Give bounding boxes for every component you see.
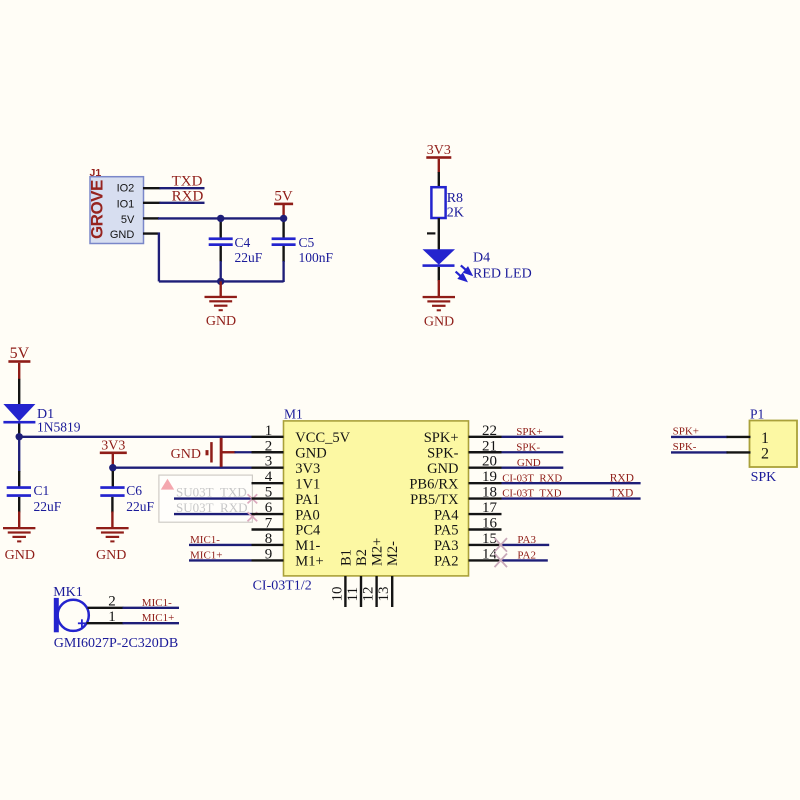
svg-text:RXD: RXD — [610, 472, 634, 484]
wire GND from J1.GND — [143, 232, 160, 234]
svg-text:16: 16 — [482, 516, 498, 532]
capacitor C1 — [7, 486, 31, 489]
svg-text:PA5: PA5 — [434, 523, 458, 539]
junction dot 5V-C5 — [280, 215, 287, 222]
LED arrows — [456, 265, 471, 280]
wire SPK- net (M1 pin21) — [502, 451, 564, 453]
svg-text:10: 10 — [329, 587, 345, 602]
wire D1 to node — [18, 424, 20, 438]
svg-text:CI-03T RXD: CI-03T RXD — [502, 472, 562, 484]
junction dot 5V-C4 — [217, 215, 224, 222]
svg-text:5V: 5V — [121, 214, 135, 226]
svg-text:1N5819: 1N5819 — [37, 420, 81, 435]
wire PA1 to M1 pin5 — [174, 497, 252, 499]
wire D4 to gnd — [438, 267, 440, 281]
wire TXD net (M1 pin18) — [502, 497, 641, 499]
M1 left pin 4 (1V1) stub — [252, 482, 284, 484]
ground (LED) — [423, 296, 455, 298]
M1 left pin 5 (PA1) stub — [252, 497, 284, 499]
wire SPK+ to P1 pin1 — [671, 436, 728, 438]
watermark box (obsolete SU03T nets) — [159, 475, 253, 522]
svg-text:19: 19 — [482, 469, 497, 485]
M1 right pin 17 (PA4) stub — [469, 513, 502, 515]
svg-text:4: 4 — [265, 469, 273, 485]
svg-text:PB5/TX: PB5/TX — [410, 492, 459, 508]
svg-text:TXD: TXD — [610, 488, 634, 500]
M1 right pin 20 (GND) stub — [469, 467, 502, 469]
svg-text:PA2: PA2 — [434, 554, 458, 570]
M1 right pin 19 (PB6/RX) stub — [469, 482, 502, 484]
svg-text:SPK+: SPK+ — [424, 430, 459, 446]
wire MIC1- to M1 pin8 — [189, 544, 252, 546]
svg-text:M2+: M2+ — [370, 538, 386, 566]
svg-text:P1: P1 — [750, 406, 764, 421]
svg-text:20: 20 — [482, 454, 497, 470]
svg-text:M1+: M1+ — [295, 554, 323, 570]
M1 left pin 6 (PA0) stub — [252, 513, 284, 515]
svg-text:6: 6 — [265, 500, 273, 516]
svg-text:18: 18 — [482, 485, 497, 501]
wire SPK- to P1 pin2 — [671, 451, 728, 453]
svg-text:C6: C6 — [126, 483, 142, 498]
junction dot 3V3 node — [109, 464, 116, 471]
svg-text:3: 3 — [265, 454, 273, 470]
wire 5V rail from J1.5V — [143, 217, 159, 219]
svg-text:VCC_5V: VCC_5V — [295, 430, 350, 446]
wire RXD net (M1 pin19) — [502, 482, 641, 484]
M1 left pin 8 (M1-) stub — [252, 544, 284, 546]
M1 left pin 7 (PC4) stub — [252, 528, 284, 530]
wire 5V to D1 — [18, 379, 20, 405]
ground (top-left) — [219, 281, 221, 296]
svg-text:GND: GND — [427, 461, 458, 477]
svg-text:M1-: M1- — [295, 538, 320, 554]
M1 right pin 21 (SPK-) stub — [469, 451, 502, 453]
junction dot 5V node — [16, 433, 23, 440]
svg-text:9: 9 — [265, 546, 273, 562]
M1 left pin 9 (M1+) stub — [252, 559, 284, 561]
svg-text:CI-03T TXD: CI-03T TXD — [502, 488, 562, 500]
capacitor C4 — [219, 218, 221, 237]
svg-text:RXD: RXD — [172, 189, 204, 205]
no-connect X pin15 — [495, 538, 508, 552]
svg-text:PB6/RX: PB6/RX — [409, 476, 459, 492]
wire RXD from J1.IO1 — [143, 202, 161, 204]
wire gnd bottom rail — [159, 280, 284, 282]
svg-text:2: 2 — [108, 594, 116, 610]
svg-text:R8: R8 — [447, 191, 463, 206]
M1 right pin 16 (PA5) stub — [469, 528, 502, 530]
svg-text:17: 17 — [482, 500, 498, 516]
M1 right pin 15 (PA3) stub — [469, 544, 502, 546]
svg-text:5: 5 — [265, 485, 273, 501]
svg-text:SPK+: SPK+ — [673, 426, 699, 438]
MK1 pin 2 wire — [88, 607, 124, 609]
wire VCC_5V to M1 pin1 — [19, 436, 251, 438]
svg-text:GND: GND — [517, 457, 541, 469]
IC M1 body — [284, 421, 469, 576]
svg-text:GND: GND — [110, 229, 135, 241]
svg-text:5V: 5V — [10, 345, 30, 362]
svg-text:3V3: 3V3 — [427, 143, 451, 158]
svg-text:12: 12 — [361, 587, 377, 602]
LED D4 — [423, 249, 456, 265]
svg-text:7: 7 — [265, 516, 273, 532]
svg-text:SU03T TXD: SU03T TXD — [176, 485, 247, 500]
svg-text:CI-03T1/2: CI-03T1/2 — [253, 578, 312, 593]
connector P1 body — [750, 421, 798, 468]
no-connect X pin5 — [248, 494, 258, 503]
svg-text:5V: 5V — [274, 188, 293, 204]
svg-text:C4: C4 — [235, 235, 251, 250]
svg-text:SPK-: SPK- — [516, 441, 540, 453]
wire gnd flag to M1 pin2 — [222, 451, 235, 453]
svg-text:SPK: SPK — [751, 470, 777, 485]
no-connect X pin6 — [248, 512, 258, 521]
M1 left pin 3 (3V3) stub — [252, 467, 284, 469]
svg-text:SU03T RXD: SU03T RXD — [176, 500, 248, 515]
svg-text:22uF: 22uF — [34, 499, 62, 514]
pin-1 tick — [427, 232, 435, 234]
svg-text:22uF: 22uF — [126, 499, 154, 514]
svg-text:MIC1-: MIC1- — [142, 597, 172, 609]
svg-text:IO2: IO2 — [117, 182, 135, 194]
svg-text:SPK-: SPK- — [427, 445, 459, 461]
svg-text:MIC1+: MIC1+ — [142, 612, 174, 624]
svg-text:GND: GND — [295, 445, 326, 461]
svg-text:GND: GND — [171, 447, 201, 462]
M1 bottom pin 10 (B1) stub — [344, 576, 346, 607]
svg-text:22uF: 22uF — [235, 250, 263, 265]
svg-text:B2: B2 — [354, 549, 370, 566]
svg-text:PA4: PA4 — [434, 507, 459, 523]
wire TXD from J1.IO2 — [143, 187, 161, 189]
M1 right pin 18 (PB5/TX) stub — [469, 497, 502, 499]
svg-text:8: 8 — [265, 531, 273, 547]
resistor R8 — [431, 187, 445, 218]
wire PA2 net (M1 pin14) — [502, 559, 548, 561]
diode D1 — [3, 404, 35, 421]
ground (C6) — [96, 527, 128, 529]
svg-text:21: 21 — [482, 438, 497, 454]
M1 left pin 1 (VCC_5V) stub — [252, 436, 284, 438]
svg-text:GND: GND — [424, 314, 454, 329]
svg-text:GROVE: GROVE — [88, 180, 107, 239]
capacitor C5 — [282, 218, 284, 237]
svg-text:PA0: PA0 — [295, 507, 319, 523]
ground (C1) — [3, 527, 35, 529]
wire GND net (M1 pin20) — [502, 467, 564, 469]
M1 bottom pin 12 (M2+) stub — [375, 576, 377, 607]
microphone MK1 symbol — [54, 598, 59, 632]
svg-text:100nF: 100nF — [299, 250, 334, 265]
wire 3V3 to C6 — [112, 468, 114, 472]
svg-text:GND: GND — [206, 314, 236, 329]
svg-text:2: 2 — [265, 438, 273, 454]
svg-text:2K: 2K — [447, 206, 464, 221]
svg-text:PA1: PA1 — [295, 492, 319, 508]
wire node to C1 — [18, 437, 20, 472]
wire PA0 to M1 pin6 — [174, 513, 252, 515]
wire PA3 net (M1 pin15) — [502, 544, 550, 546]
svg-text:IO1: IO1 — [117, 198, 135, 210]
wire MIC1+ to M1 pin9 — [189, 559, 252, 561]
svg-text:GMI6027P-2C320DB: GMI6027P-2C320DB — [54, 636, 178, 651]
junction dot gnd-C4 — [217, 278, 224, 285]
svg-text:1: 1 — [108, 609, 116, 625]
svg-text:SPK+: SPK+ — [516, 426, 542, 438]
svg-text:B1: B1 — [338, 549, 354, 566]
wire R8 to D4 — [438, 218, 440, 250]
svg-text:22: 22 — [482, 423, 497, 439]
svg-text:3V3: 3V3 — [101, 438, 125, 453]
M1 bottom pin 11 (B2) stub — [360, 576, 362, 607]
svg-text:PC4: PC4 — [295, 523, 321, 539]
svg-text:RED LED: RED LED — [473, 266, 532, 281]
M1 left pin 2 (GND) stub — [252, 451, 284, 453]
svg-text:PA3: PA3 — [517, 534, 536, 546]
svg-text:1: 1 — [265, 423, 273, 439]
svg-text:C1: C1 — [34, 483, 50, 498]
capacitor C6 — [100, 486, 124, 489]
svg-text:1V1: 1V1 — [295, 476, 320, 492]
svg-text:GND: GND — [5, 548, 35, 563]
svg-text:PA2: PA2 — [517, 550, 536, 562]
svg-text:SPK-: SPK- — [673, 441, 697, 453]
svg-text:11: 11 — [345, 587, 361, 601]
svg-text:M1: M1 — [284, 407, 303, 422]
svg-text:3V3: 3V3 — [295, 461, 320, 477]
wire 3V3 to R8 — [438, 172, 440, 188]
M1 right pin 14 (PA2) stub — [469, 559, 502, 561]
svg-text:PA3: PA3 — [434, 538, 458, 554]
svg-text:TXD: TXD — [172, 174, 203, 190]
svg-text:C5: C5 — [299, 235, 315, 250]
no-connect X pin14 — [495, 554, 508, 568]
M1 bottom pin 13 (M2-) stub — [391, 576, 393, 607]
svg-text:13: 13 — [376, 587, 392, 602]
M1 right pin 22 (SPK+) stub — [469, 436, 502, 438]
svg-text:GND: GND — [96, 548, 126, 563]
svg-text:2: 2 — [761, 445, 769, 462]
svg-text:M2-: M2- — [385, 541, 401, 566]
wire SPK+ net (M1 pin22) — [502, 436, 564, 438]
wire 3V3 to M1 pin3 — [113, 467, 252, 469]
svg-text:D4: D4 — [473, 250, 490, 265]
MK1 pin 1 wire — [87, 622, 124, 624]
